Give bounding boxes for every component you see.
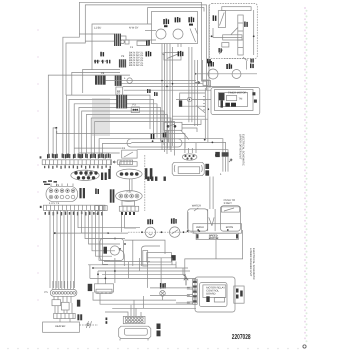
wire bm h0: [104, 261, 150, 263]
wire long 149: [137, 150, 228, 153]
lower slant: [219, 50, 223, 55]
wire OV1-OV2: [130, 179, 133, 191]
wire lowbus7: [70, 210, 72, 288]
water sw diagonal: [194, 208, 198, 211]
junction c4: [195, 73, 197, 75]
wire lowturn1: [78, 210, 140, 227]
ignitor dot: [189, 99, 190, 100]
connector block bm: [123, 316, 145, 323]
small boxes left: [95, 206, 107, 211]
junction low3: [114, 238, 116, 240]
label main: [163, 19, 169, 28]
wire lamp corner: [243, 57, 248, 60]
wire bus2: [69, 99, 154, 158]
wire riser extra1: [72, 72, 120, 95]
indicator lamp PL2: [232, 70, 241, 79]
label door: [213, 15, 217, 21]
push switch box: [221, 207, 239, 212]
label PL2: [226, 64, 232, 70]
dark blob left mesh: [151, 134, 155, 139]
wire box bottom: [224, 58, 244, 60]
label push: [224, 199, 235, 205]
scan dots bottom: [7, 348, 299, 350]
svg-text:N W GY: N W GY: [129, 27, 139, 30]
junction dot: [55, 127, 57, 129]
svg-text:1 3 5 7 9: 1 3 5 7 9: [49, 202, 60, 205]
motor side box: [143, 251, 148, 267]
wire long h: [57, 131, 185, 148]
strip P4 labels: [45, 212, 103, 216]
junction bm4: [114, 270, 116, 272]
wire cross1: [106, 80, 196, 82]
small box lower: [222, 43, 229, 47]
svg-text:ELECTRICAL SCHEMATIC: ELECTRICAL SCHEMATIC: [241, 134, 244, 166]
strip P1 labels: [44, 165, 111, 169]
wire pair right2: [131, 142, 225, 152]
drive motor box: [147, 253, 176, 263]
dark bars D2: [145, 168, 153, 179]
junction j3: [204, 139, 206, 141]
assembly box: [193, 224, 242, 234]
ignitor circle: [187, 97, 191, 101]
motor pins: [162, 44, 181, 48]
wire bm h1: [88, 264, 176, 266]
lamp circle bottom: [160, 291, 166, 297]
junction c2: [166, 86, 168, 88]
dryer dark blob: [179, 100, 182, 106]
water temp enclosure: [100, 239, 124, 261]
wire CB1 right b: [121, 39, 156, 41]
pin strip S3: [118, 160, 133, 165]
wire bm bot2: [105, 312, 128, 316]
wire h148: [74, 147, 122, 149]
scan dots: [304, 7, 308, 342]
cap connector pins: [182, 154, 197, 160]
wire br h1: [150, 287, 190, 289]
oval connector OV2: [116, 191, 143, 202]
capacitor body: [172, 162, 204, 175]
wire lowturn2: [82, 210, 129, 233]
svg-text:P10: P10: [127, 191, 132, 194]
dark mark wt: [104, 247, 108, 254]
wire riser3: [55, 128, 57, 158]
dryer pin ticks: [203, 97, 205, 110]
dryer motor feet: [120, 339, 148, 341]
wire lowbus1: [49, 210, 51, 288]
top narrow box: [222, 7, 251, 11]
junction r1: [141, 231, 143, 233]
dryer comp: [226, 96, 236, 101]
wire pair right1: [131, 139, 223, 153]
dark mark E3: [155, 177, 157, 181]
dryer dark block L: [219, 93, 225, 108]
junction c3: [172, 83, 174, 85]
label left2: [146, 51, 152, 56]
svg-text:TM: TM: [239, 97, 243, 100]
wire lowbus4: [60, 210, 62, 288]
dark bars P7: [77, 314, 82, 320]
label motor: [188, 17, 194, 26]
terminal arrow: [195, 81, 200, 84]
dark bars P2 right: [101, 173, 107, 181]
wire lowbus5: [63, 210, 65, 288]
dark marks OV2 left: [95, 189, 99, 195]
svg-text:P2: P2: [56, 184, 60, 187]
label sw: [100, 52, 104, 57]
wire motor down bundle: [162, 47, 173, 154]
wire lamp drop: [246, 61, 248, 70]
fuse box A: [203, 80, 208, 86]
oval connector P6: [50, 289, 77, 296]
wire bus3: [74, 104, 157, 158]
dark text D4: [215, 152, 220, 157]
wire lowturn7: [99, 210, 110, 260]
svg-text:BK R BU W: BK R BU W: [94, 60, 108, 63]
svg-text:L1 BU: L1 BU: [94, 27, 101, 30]
wire bm h2b: [102, 273, 186, 275]
text blob mesh1: [147, 89, 151, 93]
label left1: [146, 40, 150, 45]
wire thermo diag: [181, 130, 189, 139]
wire switch drops: [189, 47, 198, 126]
fuse box small: [125, 40, 129, 44]
part number 2207028: [232, 332, 251, 341]
edge connector ticks: [187, 287, 193, 304]
dryer motor outer: [119, 326, 151, 338]
board right column: [234, 286, 244, 303]
label upper schematic: [238, 134, 244, 166]
board inner box2: [203, 285, 226, 298]
svg-text:P4: P4: [101, 72, 105, 75]
center channel: [208, 209, 215, 231]
wire bus4: [79, 108, 161, 159]
dark mark E1: [147, 177, 149, 181]
strip end caps: [197, 234, 239, 238]
water temp circle: [110, 246, 119, 255]
svg-text:P5: P5: [45, 291, 49, 294]
motor main winding: [156, 29, 166, 39]
junction j2: [161, 140, 163, 142]
connector CB6: [131, 107, 139, 113]
relay box K1: [122, 150, 137, 158]
dryer inner box 2: [219, 93, 248, 107]
label lower schematic: [249, 248, 255, 280]
right rail: [253, 10, 255, 55]
pilot lamp: [127, 78, 132, 83]
dark connector mid: [222, 152, 229, 157]
wire bm h1b: [93, 267, 188, 269]
wire color legend: [129, 52, 144, 68]
dark comp right P6: [77, 300, 80, 307]
junction r2: [161, 231, 163, 233]
wire br h2: [150, 294, 190, 296]
svg-text:HEATER: HEATER: [55, 325, 65, 328]
wire thermo right: [182, 120, 201, 132]
loop right cell: [220, 206, 240, 231]
connector CB1 hatched: [114, 34, 121, 46]
ignitor box: [180, 93, 206, 106]
svg-text:ELECTRICAL SCHEMATIC: ELECTRICAL SCHEMATIC: [252, 248, 255, 280]
tick left P4: [40, 206, 42, 208]
wire CB1 right a: [121, 36, 126, 40]
wire bm h2: [98, 270, 190, 272]
heater box bottom: [43, 322, 80, 332]
relay pins: [120, 162, 137, 167]
junction j4: [212, 142, 214, 144]
thermo box mid: [164, 122, 182, 130]
wire bus10: [103, 143, 132, 158]
comps below P6: [52, 296, 71, 310]
label PL1: [208, 61, 214, 67]
wire bl v: [55, 303, 72, 322]
wire lowbus2: [53, 210, 55, 288]
wire conn drop: [223, 157, 228, 172]
board text: [206, 287, 225, 296]
connector row P2: [71, 170, 99, 180]
wire bundle hatch: [93, 98, 109, 136]
wire channel pair: [210, 177, 213, 210]
wire lowturn4: [89, 210, 121, 244]
junction low5: [124, 243, 126, 245]
svg-text:P7: P7: [117, 92, 121, 95]
wire into main: [145, 30, 156, 32]
wire bm v2: [115, 258, 183, 288]
dryer dark text center: [225, 103, 236, 107]
wire motor top: [124, 240, 165, 254]
junction a1: [187, 230, 189, 232]
wire bm mid1: [93, 292, 176, 300]
switch box SW: [137, 41, 149, 46]
oval connector OV1: [116, 169, 142, 179]
wire labels above P1: [47, 154, 111, 159]
wire bm mid3: [143, 296, 162, 308]
left rail dot: [211, 35, 213, 37]
wire cap drop2: [192, 143, 196, 153]
wire lowturn6: [96, 210, 113, 256]
wire lowturn3: [85, 210, 125, 238]
motor box M1: [152, 12, 198, 44]
wire bm v1: [90, 265, 106, 284]
wire motor corner: [162, 52, 165, 55]
board outer box: [195, 277, 235, 312]
tick left P1: [40, 156, 42, 158]
main connector P3: [46, 186, 78, 201]
label strip center: [209, 235, 219, 241]
motor aux winding: [173, 29, 183, 39]
dark label thermo: [163, 132, 167, 137]
small marks left of conn: [106, 318, 108, 324]
wire cap drop1: [185, 143, 189, 153]
svg-text:ECON: ECON: [226, 226, 234, 229]
wire riser extra2: [83, 69, 120, 93]
dark mark E2: [151, 177, 153, 181]
wire dryer h pair: [172, 116, 208, 119]
wire dryer down2: [215, 240, 217, 259]
dot wash: [197, 229, 199, 231]
dot econ: [227, 229, 229, 231]
wire cross4: [124, 89, 211, 91]
lid switch inner: [149, 234, 153, 236]
rail dot: [253, 35, 255, 37]
board comp: [214, 298, 224, 303]
section box right: [209, 4, 257, 59]
connector CB5 hatched: [116, 95, 127, 109]
thermostat tall box: [238, 15, 243, 55]
connector CB4 hatched: [115, 76, 122, 86]
wire bus1: [66, 95, 150, 158]
heater element box: [223, 35, 242, 40]
wire riser2: [53, 128, 56, 158]
wire loop L1 outer: [63, 2, 206, 158]
registration mark: [303, 345, 306, 348]
dryer junction: [207, 108, 209, 110]
wire loop L2: [66, 5, 207, 95]
wire bus5: [82, 111, 164, 158]
bottom marks right box: [207, 59, 254, 64]
wire dryer verticals: [205, 88, 208, 142]
junction low4: [119, 248, 121, 250]
pin strip P7: [54, 313, 75, 318]
P3 top pins: [51, 184, 73, 187]
wire bus7: [91, 118, 171, 158]
wire low h2: [55, 232, 108, 234]
wire conn drops: [131, 300, 141, 316]
board dark block: [206, 296, 209, 302]
wire lowturn8: [103, 210, 109, 264]
svg-text:UPPER DRYER UNIT: UPPER DRYER UNIT: [238, 134, 241, 160]
wire lowturn5: [92, 210, 115, 250]
junction j1: [152, 140, 154, 142]
scan dots left: [37, 29, 39, 301]
thermo sw symbol: [86, 321, 91, 328]
junction r3: [183, 231, 185, 233]
wire circle row: [128, 231, 196, 233]
center diagonal: [231, 27, 238, 34]
wire bm mid2: [100, 293, 196, 304]
wire dryer right down: [185, 230, 243, 278]
dark mark E4: [164, 177, 166, 181]
dark bars D1: [108, 169, 110, 179]
text blob mesh2: [154, 92, 158, 96]
door switch: [218, 11, 225, 28]
dark comp mid2: [110, 189, 115, 202]
label press: [171, 218, 177, 224]
dark text lamp: [160, 283, 166, 289]
loop rounded mid: [127, 139, 182, 147]
wire lamp row: [195, 73, 257, 75]
timer box: [92, 24, 152, 70]
wire to CB1 a: [79, 33, 114, 35]
box above P5: [122, 201, 135, 207]
junction bm3: [105, 278, 107, 280]
junction c1: [161, 80, 163, 82]
svg-text:K1: K1: [122, 147, 126, 150]
strip P5 labels: [121, 212, 135, 215]
junction a2: [198, 230, 200, 232]
label lid: [147, 219, 153, 224]
wire br h3: [176, 302, 190, 304]
dryer outer box: [211, 88, 260, 115]
wire motor curve: [119, 250, 125, 266]
edge connector: [193, 279, 198, 304]
wire bm h3: [90, 277, 196, 279]
wire lowbus3: [56, 210, 58, 288]
wire motor v3: [141, 246, 160, 266]
wire circ v: [187, 212, 189, 232]
dryer inner box 1: [215, 90, 254, 111]
junction bm2: [97, 273, 99, 275]
wire lowbus8: [74, 210, 76, 288]
start switch box: [164, 53, 181, 61]
strip P5: [119, 206, 138, 211]
svg-text:2207028: 2207028: [232, 332, 251, 341]
arrow small: [229, 159, 232, 162]
wire ignitor: [176, 99, 211, 101]
svg-text:BOARD: BOARD: [206, 293, 215, 296]
wire bus9: [99, 139, 131, 158]
wire bm bot1: [112, 307, 196, 309]
lid switch circle: [145, 227, 155, 237]
wire heater right: [79, 324, 98, 326]
svg-text:LOWER WASHER UNIT: LOWER WASHER UNIT: [249, 248, 252, 277]
wire motor v2: [132, 240, 134, 266]
fuse box B: [207, 81, 211, 88]
dark bars motor: [157, 324, 161, 337]
junction bm1: [92, 267, 94, 269]
label aux: [175, 17, 181, 22]
wire to CB1 b: [85, 40, 114, 42]
bottom strip dryer: [196, 233, 238, 239]
dark bars P3r: [79, 188, 85, 198]
loop left cell: [188, 209, 208, 231]
long strip P4: [43, 205, 105, 210]
connector strip P1: [42, 160, 111, 165]
wire cross3: [123, 85, 240, 87]
svg-text:WATER: WATER: [192, 205, 201, 208]
board inner box: [200, 283, 228, 307]
svg-text:P9: P9: [121, 55, 125, 58]
label lower: [219, 48, 222, 53]
wire P5 drops: [122, 215, 137, 233]
connector CB3 hatched: [95, 76, 106, 85]
wire bl pins: [53, 281, 74, 289]
tiny circle CB1: [121, 40, 125, 44]
junction low: [54, 232, 56, 234]
wire thermo drops: [166, 130, 169, 142]
text under strip: [43, 180, 57, 185]
buzzer box: [116, 87, 123, 95]
wire loop L2b: [209, 5, 211, 86]
svg-text:MOTOR: MOTOR: [209, 237, 219, 240]
wire loop L3 inner: [148, 8, 204, 24]
dashed v line: [144, 155, 146, 211]
wire cross2: [122, 83, 203, 85]
svg-text:TIMER MOTOR: TIMER MOTOR: [228, 92, 247, 95]
wire h153: [79, 152, 120, 154]
wire left riser: [48, 75, 130, 158]
arrow S3: [113, 161, 117, 163]
wire bus8: [95, 122, 175, 159]
dark mark relay: [88, 284, 93, 291]
label right: [250, 64, 254, 69]
wire heater left: [213, 28, 223, 37]
wire lowbus6: [67, 210, 69, 288]
connector CB2 hatched: [119, 59, 126, 67]
console row marks: [95, 60, 111, 64]
pressure circle: [170, 227, 180, 237]
wire dryer diag: [196, 106, 205, 114]
label start sw: [178, 51, 184, 56]
